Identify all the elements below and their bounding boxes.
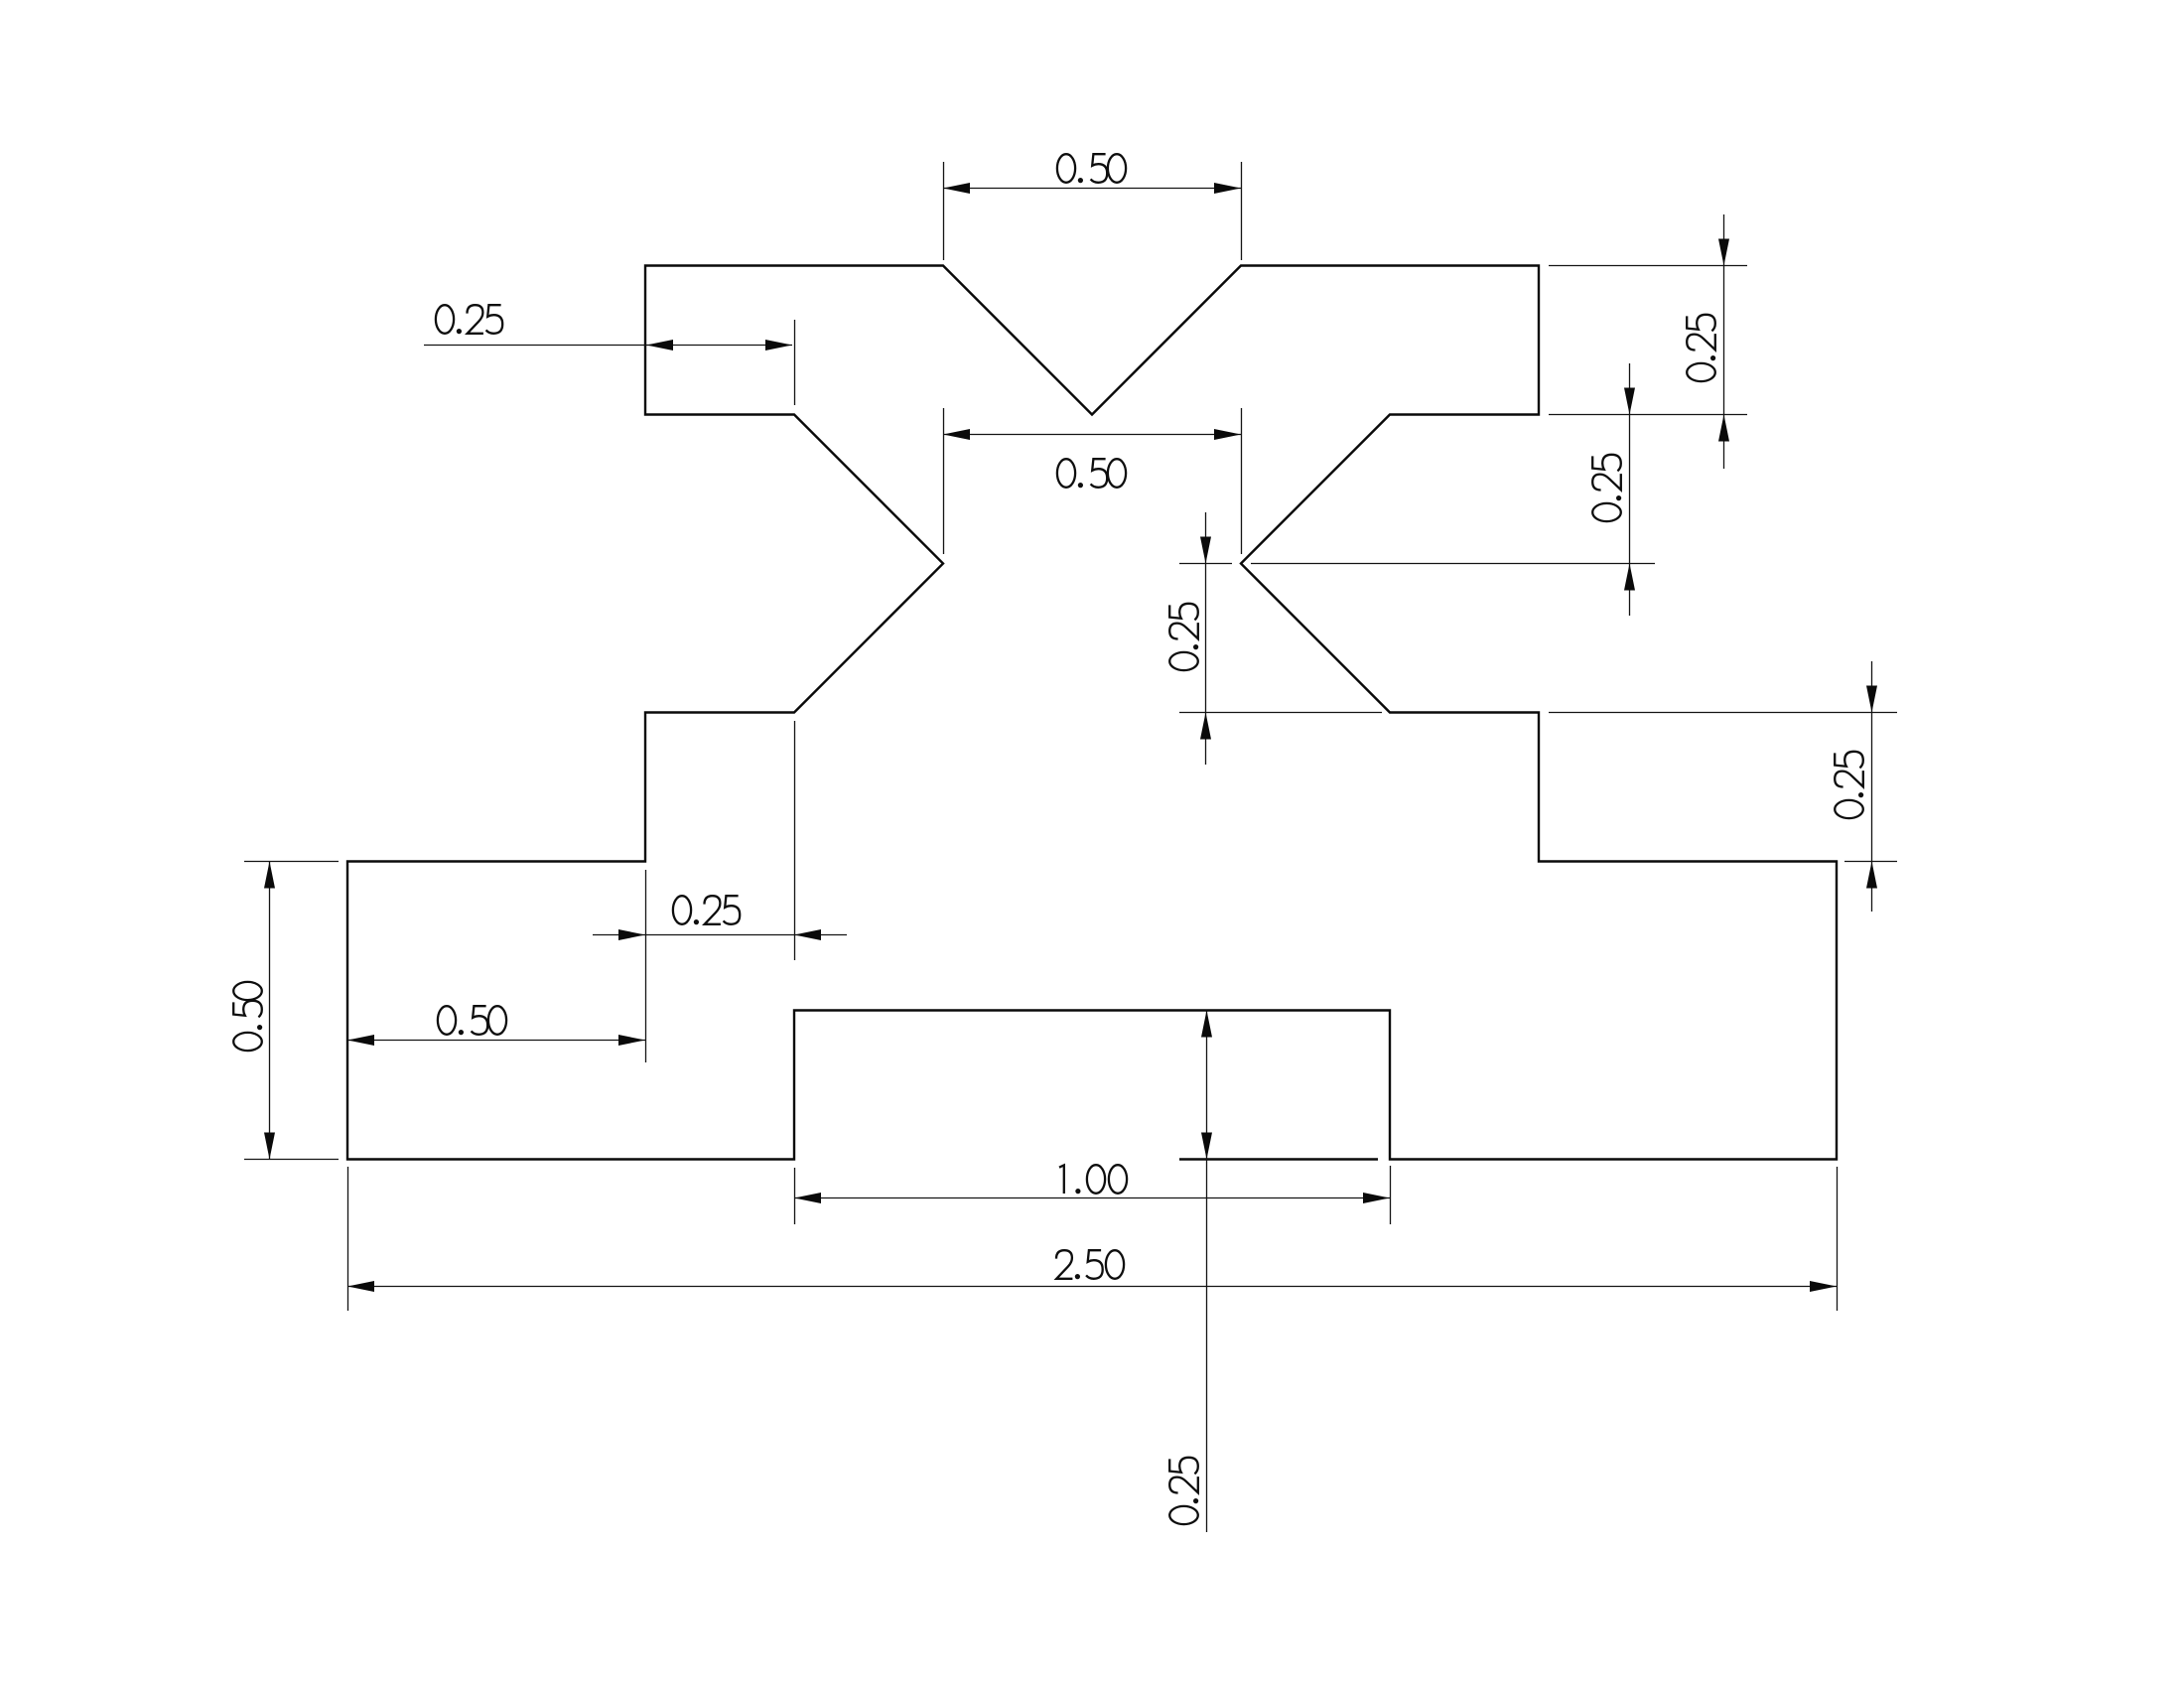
dimension texts (hand-drawn geometric glyphs): [233, 154, 1863, 1524]
dim 0.25 far-right: dimension line: [1871, 661, 1873, 912]
dim 0.50 left-vertical: extension lines: [244, 861, 339, 863]
dim 0.25 right-top arrows: [1718, 239, 1729, 266]
text 0.25 upper-left: [436, 305, 502, 334]
text 0.50 middle: [1057, 459, 1126, 488]
dim 0.25 upper-left arrows: [646, 340, 673, 351]
dim 1.00 bump arrows: [794, 1193, 821, 1203]
text 0.50 base-left: [438, 1006, 506, 1035]
dim 0.25 center-step arrows: [1200, 537, 1211, 564]
dim 2.50 overall arrows: [347, 1281, 374, 1292]
text 0.25 center-step (rotated): [1169, 604, 1198, 670]
text 0.25 column: [673, 896, 740, 924]
dim 0.25 bump-height arrows: [1201, 1011, 1212, 1038]
dim 0.25 far-right: extension lines: [1549, 712, 1897, 714]
dim 1.00 bump: extension lines: [794, 1168, 796, 1224]
arrowheads: [264, 183, 1877, 1292]
text 2.50 overall: [1056, 1250, 1124, 1279]
dim 0.50 top: extension lines: [943, 162, 945, 260]
pocket back edge segment at bottom: [1179, 1158, 1378, 1160]
dim 0.25 right-top: extension lines: [1549, 265, 1747, 267]
dim 0.25 column: extension lines: [645, 870, 647, 1062]
dim 0.50 left-vertical: dimension line: [269, 861, 271, 1159]
thin dimension/extension linework: [244, 162, 1897, 1532]
dim 0.25 upper-left: extension line: [794, 320, 796, 405]
dim 0.25 right-top: dimension line: [1723, 214, 1725, 469]
dim 0.50 left-vertical arrows: [264, 862, 275, 889]
text 1.00 bump: [1059, 1165, 1127, 1194]
dim 0.25 right-mid: extension line y=567: [1251, 563, 1655, 565]
dim 0.50 base-left: dimension line: [347, 1040, 645, 1042]
dim 0.50 top: dimension line: [943, 188, 1241, 190]
dim 0.25 far-right arrows: [1866, 686, 1877, 713]
dim 0.50 top arrows: [943, 183, 970, 194]
text 0.25 bump-height (rotated): [1169, 1458, 1198, 1524]
dim 0.50 middle arrows: [943, 429, 970, 440]
dim 0.25 bump-height: dimension line: [1206, 1010, 1208, 1532]
dim 0.25 upper-left: dimension line: [424, 345, 792, 347]
text 0.25 far-right (rotated): [1835, 752, 1863, 818]
dim 0.25 column: dimension line: [593, 934, 847, 936]
dim 1.00 bump: dimension line: [794, 1197, 1390, 1199]
dim 0.50 base-left arrows: [347, 1035, 374, 1046]
text 0.25 right-mid (rotated): [1592, 455, 1621, 521]
dim 2.50 overall: extension lines: [347, 1167, 349, 1311]
text 0.50 top: [1057, 154, 1126, 183]
dim 0.25 center-step: extension lines: [1179, 563, 1232, 565]
dim 0.25 center-step: dimension line: [1205, 512, 1207, 765]
text 0.50 left-vertical (rotated): [233, 982, 262, 1051]
part outline: [347, 266, 1837, 1160]
text 0.25 right-top (rotated): [1687, 315, 1715, 381]
dim 2.50 overall: dimension line: [347, 1286, 1837, 1288]
dim 0.25 column arrows: [618, 929, 645, 940]
dim 0.50 middle: extension lines: [943, 408, 945, 554]
dim 0.50 middle: dimension line: [943, 434, 1241, 436]
dim 0.25 right-mid: dimension line: [1629, 363, 1631, 616]
dim 0.25 right-mid arrows: [1624, 388, 1635, 415]
